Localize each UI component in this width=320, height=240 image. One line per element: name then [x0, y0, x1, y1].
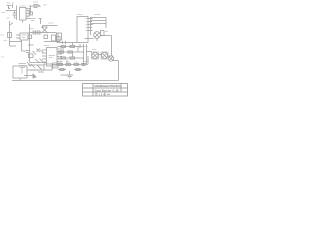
ladder row3 wire	[58, 57, 84, 59]
stub left	[28, 9, 31, 11]
diode D4	[35, 59, 40, 63]
ladder stub c	[66, 60, 68, 64]
label top-middle	[33, 1, 38, 3]
ladder rail C	[77, 47, 79, 53]
label left	[2, 12, 6, 14]
diode D2	[37, 49, 41, 53]
right riser	[118, 72, 120, 81]
relay K1 box	[52, 35, 56, 41]
label above U2	[77, 14, 83, 16]
wire module drop	[19, 78, 21, 81]
node drop	[72, 43, 74, 46]
ladder row4 wire	[52, 64, 88, 66]
wire R3 left drop	[90, 24, 92, 36]
wire Q3-Q4 links	[87, 52, 102, 55]
wire horizontal	[6, 10, 17, 12]
IC U2 tall box	[77, 17, 88, 43]
title block frame	[83, 84, 128, 97]
ladder rail D	[87, 56, 89, 64]
wire stub lower	[38, 71, 44, 73]
fuse F1	[8, 33, 12, 38]
wire left rail	[10, 21, 17, 46]
wire ground feed	[61, 71, 70, 75]
resistor RL5	[61, 57, 66, 59]
wire left drop	[29, 24, 31, 63]
diode D5	[8, 7, 10, 9]
capacitor C6	[26, 51, 30, 53]
resistor RL3	[59, 51, 64, 53]
wire bridge top	[43, 26, 58, 29]
long bottom bus	[12, 80, 119, 82]
transistor Q3	[92, 52, 99, 59]
label C5	[84, 61, 89, 63]
resistor R3 wide box	[91, 18, 107, 24]
wire top-left input	[7, 6, 12, 10]
label AC input text	[7, 2, 15, 4]
wire Q1 left	[85, 38, 94, 40]
capacitor CL2	[76, 68, 80, 70]
regulator U1 box	[20, 8, 27, 21]
label above U3	[44, 45, 50, 47]
box B2	[44, 64, 52, 70]
resistor RL7	[58, 63, 63, 65]
row5 wire	[58, 69, 82, 71]
wire Q1 right	[101, 36, 112, 45]
switch S1	[39, 19, 42, 25]
U1 pin labels	[29, 9, 31, 19]
resistor R1	[29, 12, 33, 15]
resistor R5 box	[28, 35, 32, 39]
diode row wires	[28, 65, 44, 70]
resistor R6 box	[44, 35, 48, 39]
label above bridge-top wire	[48, 22, 54, 24]
wire CN1 drop	[22, 42, 27, 52]
CN1 left pins	[16, 35, 20, 38]
small box B1	[29, 54, 34, 58]
label R1	[26, 16, 30, 18]
diode D10	[41, 50, 44, 53]
wire R3 right drop	[105, 24, 107, 29]
label X1	[7, 17, 17, 19]
labels above row4	[59, 61, 79, 63]
R3 divider	[91, 20, 107, 22]
arrow symbol	[33, 74, 36, 78]
transistor Q1	[94, 32, 101, 39]
wire Q2 stub	[108, 55, 113, 57]
wire right rail	[111, 44, 113, 56]
wire left rail top	[16, 6, 18, 21]
wire arrow feed	[24, 75, 33, 77]
diode D1 box	[34, 5, 37, 8]
label right of row4	[81, 64, 87, 66]
capacitor CL1	[60, 68, 64, 70]
diode D1 slash	[38, 5, 41, 8]
IC U3 box	[47, 48, 58, 67]
resistor RL8	[66, 63, 71, 65]
rail arrow mark	[10, 23, 13, 26]
wire module right	[27, 69, 38, 71]
label C4	[84, 46, 88, 48]
wire under bridge	[44, 33, 58, 42]
diode D6	[31, 64, 35, 68]
U2 inner pin labels	[86, 19, 88, 31]
U1 bottom pin	[22, 20, 24, 23]
input module box	[13, 66, 27, 78]
U3 left pins	[42, 50, 47, 62]
wire stub	[12, 4, 14, 8]
ground symbol	[66, 75, 73, 78]
svg-text:Guta Bender X.JB: Guta Bender X.JB	[95, 88, 119, 92]
wire main mid bus	[29, 32, 57, 34]
U1 right pins	[26, 9, 28, 19]
wire lower horizontal	[10, 40, 22, 42]
module contents	[19, 64, 27, 74]
connector CN1 box	[20, 33, 28, 40]
label left margin	[1, 56, 4, 58]
resistor RL6	[70, 57, 75, 59]
resistor RL1	[61, 45, 66, 47]
ladder row2 wire	[58, 51, 84, 53]
label right of D1	[43, 4, 47, 6]
ladder row1 wire	[58, 46, 84, 48]
U3 inner label	[49, 56, 56, 58]
ladder stub b	[72, 54, 74, 57]
wire U3 left rail	[28, 45, 47, 63]
jumper marks	[63, 41, 66, 44]
U2 pin labels	[91, 19, 93, 31]
diode D9	[38, 66, 42, 70]
svg-text:7154: 7154	[97, 93, 106, 96]
U3 right pins	[57, 49, 60, 64]
resistor R2 box	[37, 31, 40, 34]
ladder stub a	[62, 48, 64, 51]
capacitor C1	[13, 11, 17, 19]
resistor RL2	[70, 45, 75, 47]
wire mid-right rail	[86, 44, 88, 64]
box left of U2	[57, 37, 61, 42]
label left of F1	[1, 34, 5, 36]
CN1 inner mark	[22, 35, 26, 38]
transistor Q4	[101, 52, 108, 59]
resistor RL4	[68, 51, 73, 53]
capacitor C3 box	[33, 31, 36, 34]
box right K2	[57, 33, 62, 40]
diode D7	[37, 65, 41, 69]
wire top-middle	[29, 5, 41, 7]
label above R3	[94, 14, 101, 16]
label R4	[105, 31, 108, 33]
resistor RL9	[74, 63, 79, 65]
resistor R4	[101, 31, 105, 36]
U2 right pins	[88, 19, 90, 31]
box B3	[53, 63, 59, 68]
ladder rail A	[79, 44, 81, 48]
wire U2 bottom bus	[57, 42, 78, 44]
diode D3	[33, 51, 37, 55]
U3 pin labels	[60, 49, 62, 64]
bridge rectifier BR1	[42, 27, 48, 33]
label above Q3	[92, 49, 97, 51]
wire mid rail	[30, 6, 32, 15]
label row	[31, 19, 37, 21]
diode D11	[40, 59, 43, 62]
transistor Q2	[108, 56, 113, 61]
ladder rail B	[83, 44, 85, 64]
label above U1	[20, 5, 26, 7]
label left of F1 lower	[4, 40, 8, 42]
diode D8	[27, 62, 31, 67]
wire Q2 to riser	[112, 61, 119, 73]
label near bridge	[30, 28, 34, 30]
